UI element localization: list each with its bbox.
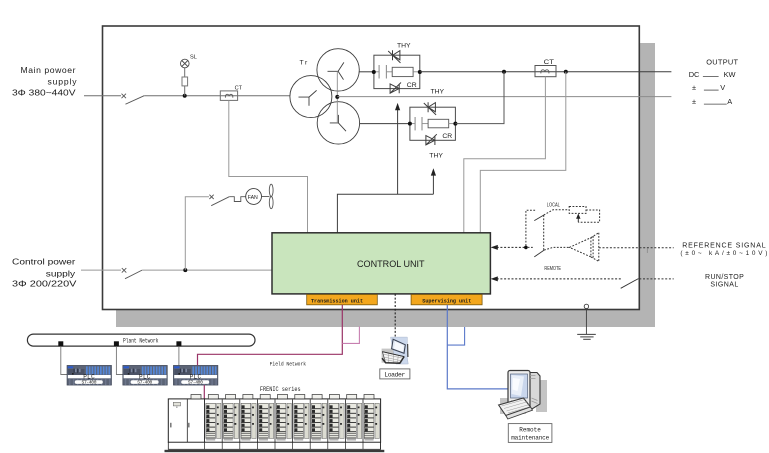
wire tap1 to PLC1	[61, 346, 67, 374]
cabinet plinth	[168, 442, 380, 449]
node top line junction A	[502, 70, 506, 74]
wire top dc line	[420, 71, 672, 73]
wire tap2 to PLC2	[116, 346, 122, 374]
svg-text:THY: THY	[397, 43, 411, 50]
label DC KW row	[689, 70, 736, 79]
svg-text:CT: CT	[544, 59, 554, 66]
label plusminus A row	[692, 97, 732, 106]
lamp SL	[181, 59, 190, 68]
blank line A	[704, 103, 727, 105]
switch remote blade	[534, 250, 544, 257]
switch S2 blade	[125, 270, 142, 279]
label plusminus V row	[692, 83, 725, 92]
svg-text:THY: THY	[429, 153, 443, 160]
wire pot wiper loop	[578, 210, 599, 222]
label RUN STOP SIGNAL	[705, 274, 744, 288]
wire reference signal dashed out	[599, 247, 674, 249]
wire local selector riser	[543, 215, 545, 251]
wire magenta PLC3 to cabinets	[203, 385, 205, 399]
laptop Loader icon	[382, 337, 409, 364]
svg-text:SIGNAL: SIGNAL	[710, 281, 738, 288]
wire main input line	[84, 95, 121, 97]
dashed arrow reference into control unit	[491, 245, 526, 250]
svg-text:KW: KW	[724, 70, 736, 79]
svg-text:supply: supply	[46, 268, 76, 278]
svg-text:CONTROL UNIT: CONTROL UNIT	[357, 259, 425, 270]
svg-text:CR: CR	[442, 133, 452, 140]
tick on reference line	[646, 249, 648, 253]
wire remote to amplifier	[528, 247, 570, 250]
transformer T1 primary winding	[290, 76, 332, 118]
node top line junction B	[564, 70, 568, 74]
svg-text:V: V	[720, 83, 725, 92]
wire fan to propeller	[262, 196, 270, 198]
wire supervising blue link	[447, 305, 510, 389]
thermal relay bump	[229, 197, 245, 202]
potentiometer dashed	[569, 207, 586, 214]
svg-text:REFERENCE SIGNAL: REFERENCE SIGNAL	[682, 243, 765, 250]
network bus Plant Network	[27, 334, 255, 346]
svg-text:maintenance: maintenance	[511, 434, 549, 441]
svg-text:CT: CT	[235, 86, 243, 92]
switch runstop blade	[621, 279, 639, 289]
wire gate firing bus	[337, 194, 433, 233]
svg-text:Supervising unit: Supervising unit	[422, 298, 471, 305]
blank line V	[704, 89, 719, 91]
label box Remote maintenance	[508, 424, 552, 443]
PLC unit 2	[123, 365, 168, 385]
svg-text:supply: supply	[48, 77, 78, 87]
current transformer CT2	[535, 66, 556, 77]
svg-text:REMOTE: REMOTE	[544, 266, 561, 272]
main enclosure box	[103, 26, 640, 310]
switch local blade	[534, 215, 543, 221]
wire transformer center link	[336, 71, 338, 123]
wire control line to control unit	[142, 269, 272, 271]
switch S2 contact x	[122, 268, 127, 273]
svg-text:Main powoer: Main powoer	[21, 65, 76, 75]
svg-text:Plant Network: Plant Network	[123, 338, 159, 346]
svg-text:Remote: Remote	[519, 427, 541, 434]
motor FAN	[246, 189, 262, 205]
computer Remote maintenance icon	[499, 371, 547, 420]
wire tap3 to PLC3	[178, 346, 180, 365]
node bus tap 1	[58, 341, 63, 346]
svg-text:±: ±	[692, 97, 696, 106]
switch S1 contact x	[122, 94, 127, 99]
node fan tap junction	[183, 268, 187, 272]
wire CT2 sense line b	[480, 72, 566, 233]
wire blue branch stub	[447, 327, 464, 345]
wire magenta branch stub	[342, 327, 359, 344]
wire upper secondary to THY1	[359, 71, 374, 73]
wire SL branch	[184, 68, 186, 96]
ground symbol	[577, 304, 596, 339]
transformer T1 secondary winding lower	[317, 102, 359, 144]
svg-text:LOCAL: LOCAL	[547, 202, 560, 208]
svg-text:FRENIC series: FRENIC series	[260, 386, 301, 394]
node transformer star point	[335, 95, 339, 99]
svg-text:CR: CR	[407, 82, 417, 89]
wire main line to transformer	[144, 95, 290, 97]
switch S3 blade	[211, 197, 229, 206]
svg-text:RUN/STOP: RUN/STOP	[705, 274, 744, 281]
cabinet bays	[205, 400, 380, 443]
node THY2 left	[408, 122, 412, 126]
amplifier dashed triangle	[569, 233, 598, 262]
supervising unit box	[411, 295, 482, 305]
svg-text:SL: SL	[190, 54, 197, 60]
svg-text:Control power: Control power	[12, 256, 75, 266]
svg-text:Field Network: Field Network	[270, 361, 307, 368]
label Control power supply	[12, 256, 77, 288]
wire mid output line	[337, 96, 671, 98]
transmission unit box	[307, 295, 378, 305]
svg-text:DC: DC	[689, 70, 700, 79]
wire local to pot	[544, 210, 570, 215]
switch S3 contact x	[209, 195, 213, 199]
label box Loader	[380, 369, 410, 379]
dashed arrow runstop into control unit	[491, 276, 622, 281]
propeller blades	[269, 184, 273, 209]
cabinet door 1	[170, 399, 187, 442]
node THY1 left	[372, 70, 376, 74]
node bus tap 2	[114, 341, 119, 346]
enclosure shadow	[116, 43, 655, 327]
svg-text:THY: THY	[431, 89, 445, 96]
cabinet floor bar	[165, 450, 385, 452]
transformer T1 secondary winding upper	[317, 49, 359, 91]
fuse F1	[182, 77, 188, 86]
wire fan branch riser	[185, 197, 209, 270]
svg-text:3Φ 200/220V: 3Φ 200/220V	[12, 278, 77, 288]
svg-text:Transmission unit: Transmission unit	[311, 298, 363, 305]
svg-text:A: A	[727, 97, 732, 106]
node THY1 right	[418, 70, 422, 74]
cabinet FRENIC enclosure	[168, 399, 380, 442]
wire dashed loader link	[394, 294, 396, 337]
label REFERENCE SIGNAL	[680, 243, 767, 258]
wire local selector dashed corner	[526, 210, 535, 246]
label Main power supply	[12, 65, 77, 97]
thyristor module THY2	[410, 102, 456, 145]
PLC unit 1	[67, 365, 112, 385]
wire gate arrow to THY1	[395, 103, 400, 194]
current transformer CT1	[220, 91, 237, 101]
arrow pot wiper	[576, 213, 580, 222]
node THY2 right	[453, 122, 457, 126]
cabinet door 2	[188, 399, 204, 442]
control unit box	[272, 233, 490, 294]
wire CT1 sense line to control unit	[229, 100, 308, 232]
svg-text:OUTPUT: OUTPUT	[706, 58, 738, 67]
wire runstop dashed out	[639, 278, 673, 280]
node bus tap 3	[176, 341, 181, 346]
thyristor module THY1	[374, 50, 420, 93]
wire THY2 output riser	[455, 72, 504, 124]
svg-text:FAN: FAN	[248, 195, 258, 201]
svg-text:Tr: Tr	[300, 60, 309, 67]
wire lower secondary to THY2	[360, 123, 410, 125]
blank line DC	[703, 76, 719, 78]
svg-text:Loader: Loader	[384, 372, 405, 379]
node reference junction	[524, 246, 528, 250]
wire field network magenta	[198, 305, 343, 366]
node SL tap junction	[183, 94, 187, 98]
wire control power line	[81, 269, 121, 271]
switch S1 blade	[126, 96, 145, 105]
PLC unit 3	[173, 365, 218, 385]
cabinet roof caps	[191, 395, 374, 399]
svg-text:3Φ 380~440V: 3Φ 380~440V	[12, 88, 76, 98]
wire CT2 sense line a	[464, 77, 546, 233]
wire gate arrow to THY2	[431, 168, 436, 194]
svg-text:±: ±	[692, 83, 696, 92]
